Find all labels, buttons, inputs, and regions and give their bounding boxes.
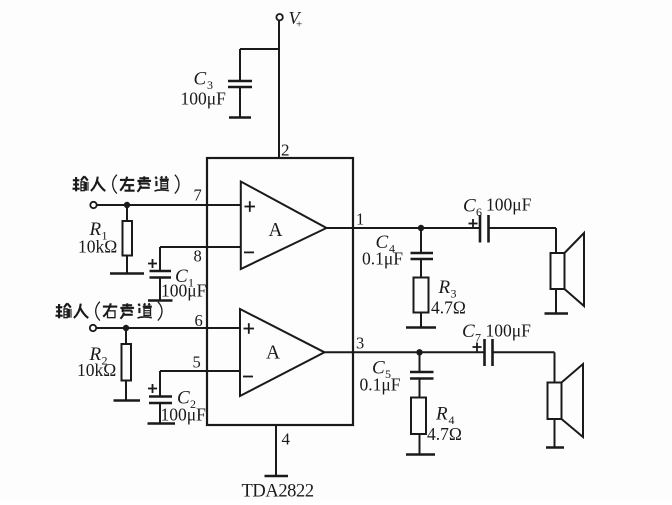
svg-text:100μF: 100μF [486, 321, 532, 341]
svg-text:10kΩ: 10kΩ [78, 237, 117, 257]
svg-text:4: 4 [282, 430, 291, 449]
svg-text:C: C [463, 196, 476, 217]
svg-text:A: A [266, 343, 280, 364]
svg-text:R: R [435, 404, 448, 425]
svg-text:C: C [194, 69, 207, 90]
svg-text:A: A [269, 220, 283, 241]
svg-text:10kΩ: 10kΩ [77, 360, 116, 380]
svg-text:+: + [296, 19, 302, 31]
svg-text:100μF: 100μF [181, 89, 227, 109]
svg-text:2: 2 [281, 141, 290, 160]
svg-text:4.7Ω: 4.7Ω [431, 298, 466, 318]
svg-text:R: R [438, 277, 451, 298]
svg-text:6: 6 [476, 205, 482, 219]
svg-text:3: 3 [356, 334, 364, 353]
svg-text:TDA2822: TDA2822 [242, 482, 314, 501]
svg-text:4.7Ω: 4.7Ω [427, 424, 462, 444]
svg-text:0.1μF: 0.1μF [360, 375, 401, 395]
svg-text:6: 6 [195, 311, 203, 330]
svg-text:5: 5 [193, 353, 201, 372]
svg-text:7: 7 [194, 186, 202, 205]
svg-text:8: 8 [194, 247, 202, 266]
svg-text:0.1μF: 0.1μF [362, 249, 403, 269]
svg-text:100μF: 100μF [161, 281, 207, 301]
svg-text:C: C [462, 321, 475, 342]
svg-text:100μF: 100μF [486, 195, 532, 215]
svg-text:7: 7 [475, 331, 481, 345]
svg-text:100μF: 100μF [161, 405, 207, 425]
svg-text:1: 1 [356, 210, 364, 229]
